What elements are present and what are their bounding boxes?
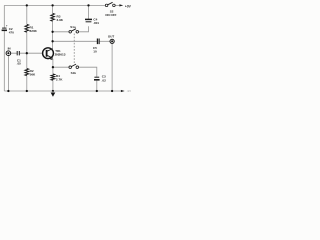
svg-text:820K: 820K: [30, 29, 38, 33]
svg-text:56K: 56K: [30, 73, 36, 77]
transistor TR1 collector lead: [47, 49, 53, 52]
node collector/output: [51, 40, 53, 42]
wire left rail upper (to C2): [3, 5, 5, 28]
IN jack: [6, 51, 11, 56]
wire R2 branch: [26, 53, 28, 91]
resistor R4 2.7K: [51, 74, 55, 80]
wire emitter to S1b: [53, 66, 69, 68]
wire base line: [11, 52, 43, 54]
svg-text:10: 10: [93, 49, 97, 53]
switch S1b: [69, 66, 72, 69]
node base: [26, 52, 28, 54]
wire S1b to C3: [79, 67, 97, 77]
node OUT sleeve/ground: [111, 90, 113, 92]
wire C3 to ground rail: [96, 81, 98, 91]
svg-text:S1b: S1b: [71, 71, 77, 75]
svg-text:3.9K: 3.9K: [57, 18, 64, 22]
wire left rail lower (C2 to ground rail): [3, 31, 5, 91]
wire collector to S1a: [53, 31, 69, 33]
svg-text:OUT: OUT: [108, 35, 115, 39]
node C4/top rail: [87, 4, 89, 6]
node R4/ground: [52, 90, 54, 92]
svg-text:470: 470: [9, 31, 14, 35]
svg-text:.001: .001: [93, 21, 99, 25]
wire top supply rail: [4, 4, 105, 6]
resistor R1 820K: [25, 24, 29, 32]
resistor R2 56K: [25, 69, 29, 76]
svg-text:-9V: -9V: [127, 89, 132, 93]
wire S2 to +9V arrow: [115, 4, 119, 6]
gang link dashed S1a-S1b: [73, 34, 75, 65]
wire S1a to C4 bottom: [79, 26, 89, 32]
chassis ground arrow below rail: [52, 91, 54, 93]
capacitor C2 electrolytic filter: [2, 27, 6, 29]
node R3/top rail: [51, 4, 53, 6]
svg-text:+9V: +9V: [125, 4, 132, 8]
transistor TR1 emitter lead: [47, 55, 53, 58]
wire bottom ground rail: [4, 90, 121, 92]
node emitter/S1b: [52, 66, 54, 68]
transistor TR1 emitter arrow: [50, 57, 53, 60]
wire R1 branch: [26, 5, 28, 53]
switch S1a: [69, 31, 72, 34]
switch S2: [105, 4, 108, 7]
svg-text:+: +: [6, 23, 8, 27]
capacitor C1 input: [17, 51, 19, 55]
wire emitter branch: [52, 59, 54, 91]
capacitor C5 output: [97, 39, 99, 45]
node R1/top rail: [26, 4, 28, 6]
svg-text:.02: .02: [102, 78, 107, 82]
svg-text:2.7K: 2.7K: [56, 77, 63, 81]
wire C4 top to rail: [88, 5, 90, 19]
svg-text:ON OFF: ON OFF: [105, 13, 116, 17]
OUT jack: [110, 39, 114, 43]
wire R3/collector branch: [52, 5, 54, 48]
capacitor C3: [94, 76, 99, 78]
svg-text:S1a: S1a: [70, 25, 76, 29]
svg-text:2N2613: 2N2613: [55, 53, 66, 57]
wire OUT jack sleeve: [111, 43, 113, 91]
transistor TR1 circle: [43, 48, 54, 59]
capacitor C4: [85, 18, 92, 20]
node IN sleeve/ground: [7, 90, 9, 92]
+9V arrow: [119, 4, 123, 6]
transistor TR1 base bar: [46, 50, 48, 57]
node collector/S1a: [51, 31, 53, 33]
wire output line collector to C5: [53, 40, 97, 42]
resistor R3 3.9K: [51, 13, 55, 21]
svg-text:IN: IN: [8, 47, 11, 51]
wire IN jack sleeve to ground: [7, 56, 9, 91]
wire C5 to OUT jack: [100, 40, 111, 42]
svg-text:.05: .05: [17, 62, 22, 66]
node C3/ground: [96, 90, 98, 92]
node R2/ground: [26, 90, 28, 92]
ground rail end arrow: [121, 90, 125, 92]
